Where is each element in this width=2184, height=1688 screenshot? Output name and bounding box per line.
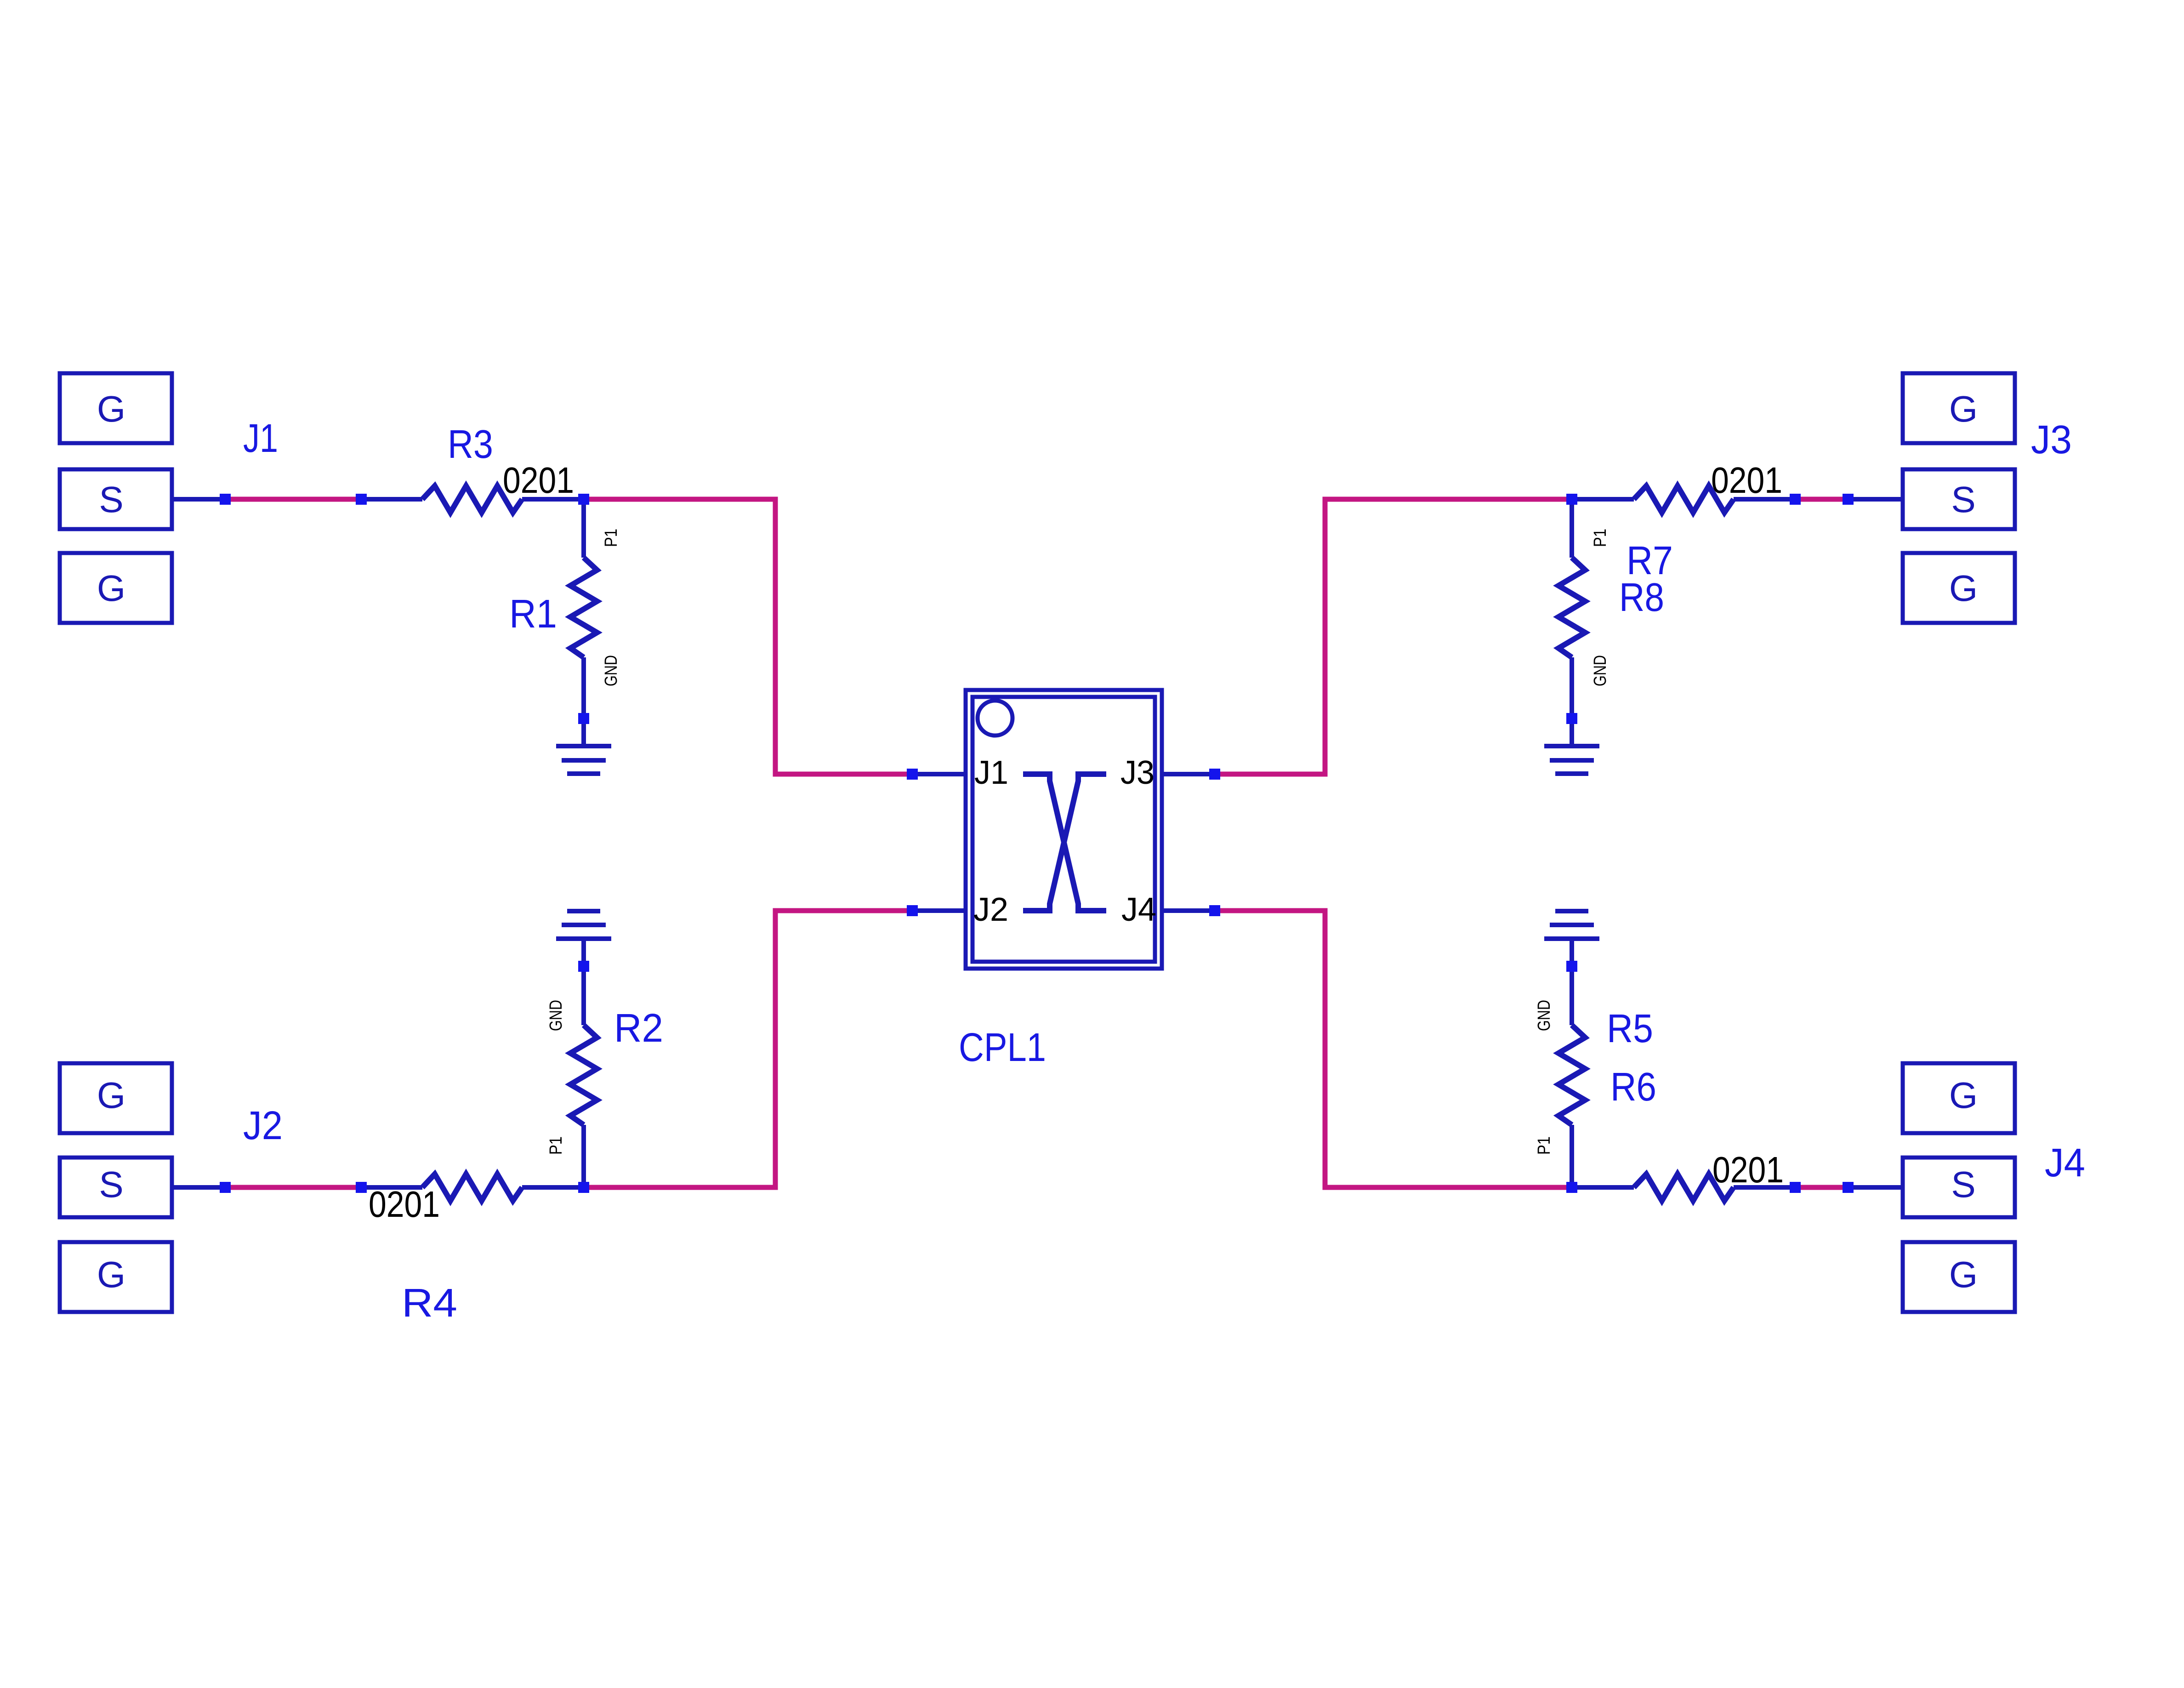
wire node to R1 (blue): [581, 499, 586, 558]
wire R3 to node (blue): [522, 497, 584, 502]
svg-text:S: S: [1951, 479, 1975, 520]
node square R7/R8: [1566, 494, 1577, 505]
wire R4 to node (blue): [522, 1185, 584, 1190]
connector J2 pad G top: [60, 1063, 172, 1133]
svg-text:G: G: [1949, 388, 1978, 429]
wire net J2 (pink): [225, 1185, 361, 1190]
coupler CPL1 outer box: [966, 690, 1162, 969]
svg-text:0201: 0201: [369, 1184, 440, 1225]
svg-text:S: S: [99, 1164, 123, 1205]
svg-text:R8: R8: [1619, 575, 1664, 620]
connector J2 pad S: [60, 1158, 172, 1217]
wire node to resistor (blue): [1572, 1185, 1634, 1190]
svg-text:G: G: [97, 1075, 125, 1116]
wire R2 to gnd square (blue): [581, 972, 586, 1025]
svg-text:R5: R5: [1607, 1006, 1653, 1051]
wire R1 to gnd square (blue): [581, 657, 586, 713]
svg-text:R2: R2: [614, 1006, 663, 1050]
svg-text:GND: GND: [602, 655, 621, 686]
connector J1 pad G top: [60, 373, 172, 443]
pin square CPL1 J3: [1209, 769, 1220, 780]
svg-text:P1: P1: [1591, 529, 1610, 547]
wire node to R5 (blue): [1570, 1125, 1574, 1187]
wire square to J4 S-pad (blue): [1848, 1185, 1903, 1190]
wire CPL1 J4 pin to square (blue): [1162, 908, 1215, 913]
svg-text:P1: P1: [1535, 1136, 1554, 1155]
svg-text:J1: J1: [974, 754, 1008, 791]
wire node to R8 (blue): [1570, 499, 1574, 558]
wire node to R7 resistor (blue): [1572, 497, 1634, 502]
svg-text:G: G: [97, 1254, 125, 1295]
wire CPL1 J4 to node (pink): [1215, 911, 1572, 1187]
pin square CPL1 J2: [907, 905, 918, 916]
ground (top-left): [556, 746, 611, 774]
wire resistor to square (blue): [1734, 1185, 1795, 1190]
wire gnd square to ground (blue): [1570, 724, 1574, 746]
gnd square top-right: [1566, 713, 1577, 724]
pin square CPL1 J1: [907, 769, 918, 780]
wire node to CPL1 J1 (pink): [584, 499, 912, 774]
connector J3 pad G top: [1903, 373, 2015, 443]
connector J1 pad G bottom: [60, 553, 172, 623]
wire net J3 (pink): [1795, 497, 1848, 502]
resistor R2: [570, 1025, 597, 1125]
junction square: [1843, 1182, 1854, 1193]
ground (top-right): [1544, 746, 1599, 774]
gnd square bottom-right: [1566, 961, 1577, 972]
wire gnd square to ground (blue): [1570, 939, 1574, 961]
connector J4 pad G bottom: [1903, 1242, 2015, 1312]
gnd square top-left: [578, 713, 589, 724]
coupler CPL1 inner box: [973, 697, 1155, 962]
svg-text:G: G: [1949, 568, 1978, 609]
svg-text:CPL1: CPL1: [959, 1025, 1046, 1070]
connector J3 pad S: [1903, 469, 2015, 529]
junction square: [220, 1182, 231, 1193]
wire square to J3 S-pad (blue): [1848, 497, 1903, 502]
node square R5/R6: [1566, 1182, 1577, 1193]
svg-text:P1: P1: [546, 1136, 566, 1155]
svg-text:0201: 0201: [503, 460, 574, 501]
wire junction to R4 (blue): [361, 1185, 422, 1190]
connector J2 pad G bottom: [60, 1242, 172, 1312]
svg-text:G: G: [1949, 1075, 1978, 1116]
svg-text:J2: J2: [973, 891, 1008, 928]
wire net J4 (pink): [1795, 1185, 1848, 1190]
svg-text:R6: R6: [1610, 1065, 1656, 1109]
resistor R6: [1634, 1174, 1734, 1201]
wire net J1 (pink): [225, 497, 361, 502]
coupler CPL1 cross line J2-J3: [1023, 774, 1106, 911]
junction square: [220, 494, 231, 505]
wire CPL1 J3 to node (pink): [1215, 499, 1572, 774]
svg-text:J2: J2: [243, 1103, 283, 1148]
node square R3/R1: [578, 494, 589, 505]
junction square: [356, 1182, 367, 1193]
wire pin square to CPL1 J2 pin (blue): [912, 908, 966, 913]
svg-text:J4: J4: [1121, 891, 1156, 928]
svg-text:S: S: [99, 479, 123, 520]
svg-text:R1: R1: [509, 592, 557, 636]
pin square CPL1 J4: [1209, 905, 1220, 916]
wire CPL1 J3 pin to square (blue): [1162, 772, 1215, 776]
junction square: [356, 494, 367, 505]
svg-text:GND: GND: [546, 1000, 566, 1031]
svg-text:J3: J3: [2031, 417, 2072, 462]
svg-text:GND: GND: [1535, 1000, 1554, 1031]
wire gnd square to ground (blue): [581, 724, 586, 746]
wire resistor to square (blue): [1734, 497, 1795, 502]
wire gnd square to ground (blue): [581, 939, 586, 961]
svg-text:P1: P1: [602, 529, 621, 547]
wire node to R2 (blue): [581, 1125, 586, 1187]
svg-text:0201: 0201: [1711, 460, 1782, 501]
coupler CPL1 cross line J1-J4: [1023, 774, 1106, 911]
resistor R3: [422, 486, 522, 513]
junction square: [1790, 494, 1801, 505]
node square R4/R2: [578, 1182, 589, 1193]
wire pin square to CPL1 J1 pin (blue): [912, 772, 966, 776]
wire J2 S-pad to junction (blue): [171, 1185, 225, 1190]
connector J4 pad S: [1903, 1158, 2015, 1217]
svg-text:J4: J4: [2045, 1141, 2085, 1185]
ground (bottom-left, inverted): [556, 911, 611, 939]
connector J4 pad G top: [1903, 1063, 2015, 1133]
junction square: [1790, 1182, 1801, 1193]
resistor R8: [1558, 558, 1585, 657]
connector J1 pad S: [60, 469, 172, 529]
wire junction to R3 (blue): [361, 497, 422, 502]
svg-text:R4: R4: [402, 1281, 457, 1325]
resistor R4: [422, 1174, 522, 1201]
junction square: [1843, 494, 1854, 505]
resistor R1: [570, 558, 597, 657]
wire R5 to gnd square (blue): [1570, 972, 1574, 1025]
wire R8 to gnd square (blue): [1570, 657, 1574, 713]
svg-text:R3: R3: [448, 422, 493, 467]
wire J1 S-pad to junction (blue): [172, 497, 225, 502]
svg-text:G: G: [97, 388, 125, 429]
ground (bottom-right, inverted): [1544, 911, 1599, 939]
svg-text:J1: J1: [243, 416, 278, 461]
svg-text:G: G: [97, 568, 125, 609]
svg-text:G: G: [1949, 1254, 1978, 1295]
connector J3 pad G bottom: [1903, 553, 2015, 623]
svg-text:S: S: [1951, 1164, 1975, 1205]
wire node to CPL1 J2 (pink): [584, 911, 912, 1187]
svg-text:0201: 0201: [1712, 1149, 1784, 1190]
resistor R5: [1558, 1025, 1585, 1125]
svg-text:GND: GND: [1591, 655, 1610, 686]
resistor R7: [1634, 486, 1734, 513]
coupler CPL1 pin-1 circle: [978, 701, 1012, 736]
svg-text:J3: J3: [1120, 754, 1155, 791]
gnd square bottom-left: [578, 961, 589, 972]
